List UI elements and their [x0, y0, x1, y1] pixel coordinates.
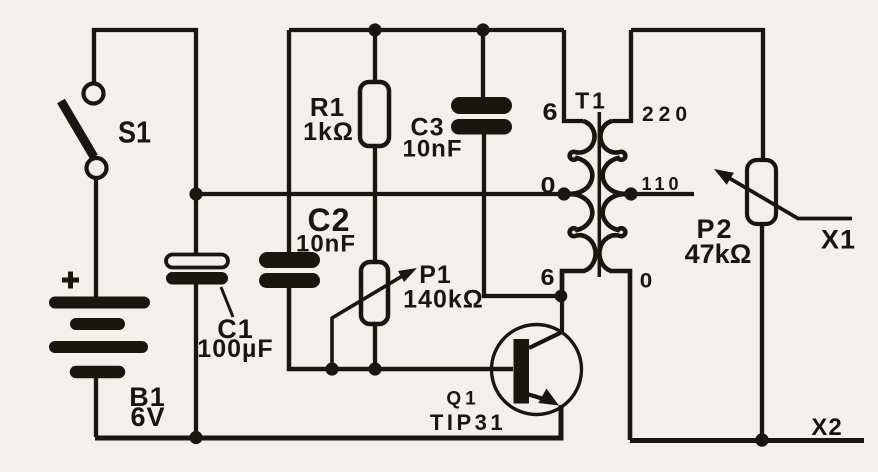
battery B1 plate 2 (short)	[76, 318, 119, 330]
potentiometer P2 body	[747, 160, 776, 224]
node: supply junction at C1 top	[189, 187, 202, 200]
wire: P2 bottom lead	[760, 224, 764, 440]
node: X2 junction	[755, 433, 768, 446]
svg-text:6: 6	[541, 264, 555, 290]
wire: R1 bottom lead to P1	[373, 146, 377, 262]
node: collector junction	[555, 290, 568, 303]
svg-text:10nF: 10nF	[402, 136, 462, 163]
svg-text:100µF: 100µF	[197, 335, 273, 363]
svg-text:Q1: Q1	[446, 389, 479, 410]
wire: top-right rail	[631, 30, 763, 160]
wire: C1 bottom lead	[194, 284, 198, 437]
capacitor C1 top plate (hollow)	[166, 255, 228, 268]
transformer T1 primary winding	[562, 121, 596, 296]
svg-text:10nF: 10nF	[296, 231, 356, 258]
capacitor C3 bottom plate	[451, 119, 512, 135]
svg-text:1kΩ: 1kΩ	[303, 118, 354, 146]
transistor Q1 collector lead	[529, 296, 562, 348]
wire: primary bottom to collector node	[560, 271, 564, 296]
wire: S1 to battery	[94, 178, 98, 297]
node: R1 top junction	[368, 23, 381, 36]
wire: middle top rail	[289, 28, 564, 32]
svg-text:TIP31: TIP31	[430, 410, 506, 435]
node: secondary center tap	[624, 187, 637, 200]
battery B1 plate 1 (long)	[55, 297, 144, 309]
capacitor C3 top plate	[451, 97, 512, 114]
wire: battery to bottom rail	[94, 378, 98, 437]
wire: C2 top lead from rail	[287, 30, 291, 252]
switch S1 lever	[61, 101, 94, 157]
svg-text:X2: X2	[811, 414, 842, 441]
transistor Q1 base bar	[514, 339, 530, 404]
node: P1 wiper junction	[325, 362, 338, 375]
wire: S1 top lead	[92, 30, 96, 84]
resistor R1 body	[360, 82, 389, 146]
node: C1 bottom junction	[189, 431, 202, 444]
capacitor C1 bottom plate (solid)	[166, 272, 228, 285]
wire: top-left rail S1 to C1 column	[94, 30, 196, 192]
node: C3 top junction	[476, 23, 489, 36]
transistor Q1 emitter lead with arrow	[527, 394, 547, 400]
P1 wiper arrow	[332, 275, 404, 369]
wire: R1 top lead	[373, 30, 377, 82]
svg-text:220: 220	[642, 103, 692, 126]
node: primary center tap	[557, 187, 570, 200]
P2 wiper arrow to X1	[724, 175, 852, 219]
svg-text:140kΩ: 140kΩ	[403, 286, 484, 314]
svg-text:110: 110	[641, 174, 682, 194]
switch S1 top contact	[84, 84, 104, 104]
switch S1 bottom contact	[87, 158, 107, 178]
capacitor C2 bottom plate	[259, 273, 320, 288]
potentiometer P1 body	[361, 262, 388, 324]
wire: C3 bottom lead to collector node	[484, 134, 561, 296]
svg-text:0: 0	[541, 172, 556, 198]
transformer T1 secondary top lead	[612, 30, 631, 121]
battery B1 plate 3 (long)	[55, 341, 142, 353]
node: P1 bottom junction	[368, 362, 381, 375]
wire: P1 bottom lead	[373, 324, 377, 369]
svg-text:S1: S1	[118, 115, 151, 150]
svg-text:0: 0	[640, 270, 653, 293]
battery B1 plus sign	[62, 272, 79, 289]
wire: C1 top lead	[194, 194, 198, 255]
transformer T1 core	[598, 112, 602, 277]
svg-text:6: 6	[543, 99, 558, 126]
wire: bottom-left ground rail	[95, 406, 561, 438]
wire: bottom-right rail X2	[630, 438, 864, 443]
transformer T1 secondary winding	[599, 121, 630, 440]
wire: 110 tap lead	[631, 192, 694, 196]
C1 pointer line	[221, 287, 233, 317]
wire: C2 bottom lead and base line	[289, 288, 513, 369]
transformer T1 primary top lead	[564, 30, 583, 121]
svg-text:6V: 6V	[130, 402, 165, 432]
svg-text:47kΩ: 47kΩ	[685, 239, 752, 269]
battery B1 plate 4 (short)	[76, 366, 119, 379]
wire: C3 top lead	[481, 30, 485, 97]
transistor Q1 circle	[492, 325, 582, 415]
svg-text:X1: X1	[821, 225, 856, 255]
wire: supply line to transformer center tap	[196, 192, 564, 196]
capacitor C2 top plate	[259, 252, 320, 268]
svg-text:T1: T1	[575, 88, 608, 114]
